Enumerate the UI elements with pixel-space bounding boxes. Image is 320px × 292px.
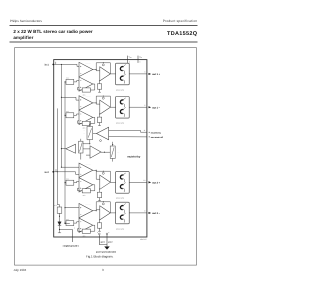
resistor Rb4 below power amp (99, 219, 101, 223)
svg-text:in 2: in 2 (45, 171, 49, 174)
svg-text:3: 3 (139, 61, 140, 63)
bootstrap loop path 3 (96, 170, 110, 172)
svg-text:- - - - -: - - - - - (86, 62, 91, 64)
wire rail B to A5 input (61, 166, 79, 168)
input pin IN2 (52, 171, 54, 173)
svg-text:20 k: 20 k (83, 128, 86, 130)
wire OS1 to pin / output pin out 1 + (129, 73, 147, 75)
resistor Rin1 (65, 81, 66, 83)
resistor Rin4 (65, 222, 66, 224)
wire rail C to Rin4 (65, 223, 70, 225)
svg-text:10: 10 (143, 180, 145, 182)
svg-text:Philips Semiconductors: Philips Semiconductors (10, 19, 42, 22)
svg-text:3: 3 (102, 269, 104, 272)
ground symbol (105, 247, 110, 250)
svg-text:11: 11 (144, 130, 146, 132)
resistor Rfb4 (82, 229, 90, 233)
op-amp A2 (inverting stage path 1) (79, 77, 93, 91)
feedback wire path 2 (90, 117, 94, 123)
svg-text:- -: - - (87, 140, 88, 142)
wire PA1 to output stage (110, 73, 115, 75)
svg-text:20 k: 20 k (83, 195, 86, 197)
op-amp A7 (input stage path 4) (79, 204, 93, 218)
svg-text:20 k: 20 k (83, 235, 86, 237)
wire Z1 to Z2 (89, 140, 91, 144)
svg-text:out 2 +: out 2 + (152, 182, 160, 185)
bootstrap loop path 1 (96, 62, 110, 64)
power op-amp PA2 (100, 100, 111, 114)
svg-text:1: 1 (74, 227, 75, 229)
op-amp A8 (inverting stage path 4) (79, 218, 93, 232)
svg-text:3: 3 (144, 71, 145, 73)
wire D1 to signal ground pin (59, 225, 61, 229)
resistor Rin2 (65, 114, 66, 116)
small node circle (100, 140, 102, 142)
svg-text:20 k: 20 k (66, 111, 69, 113)
feedback wire path 3 (90, 185, 94, 191)
resistor Rb1 below power amp (99, 80, 101, 84)
svg-text:mute/st-by: mute/st-by (151, 132, 161, 134)
power op-amp PA3 (100, 175, 111, 189)
output stage OS4 (116, 202, 130, 224)
svg-text:out 2 −: out 2 − (152, 212, 160, 215)
output stage OS3 (116, 172, 130, 194)
svg-text:gnd 2: gnd 2 (108, 241, 112, 243)
svg-text:Product specification: Product specification (163, 19, 198, 23)
output stage OS2 (116, 97, 130, 119)
power ground pin 2 (106, 233, 108, 235)
svg-text:power amp: power amp (116, 197, 124, 199)
op-amp A1 (input stage path 1) (79, 62, 93, 76)
supply pin VP1 (top) (127, 56, 129, 63)
svg-text:mute/st-by: mute/st-by (127, 155, 140, 158)
op-amp A4 (inverting stage path 2) (79, 110, 93, 124)
wire rail B to A3 input (61, 97, 79, 100)
svg-text:30 k: 30 k (54, 205, 57, 207)
svg-text:amplifier: amplifier (13, 35, 33, 40)
zener Z1 (vertical box) (89, 122, 91, 127)
supply pin VP2 (top) (137, 56, 139, 63)
svg-text:( signal ground ): ( signal ground ) (63, 245, 79, 247)
wire PA2 to output stage (110, 106, 115, 108)
svg-text:20 k: 20 k (83, 94, 86, 96)
resistor Rfb1 (82, 88, 90, 92)
svg-text:5: 5 (97, 232, 98, 234)
wire PA3 to output stage (110, 181, 115, 183)
wire PA4 to output stage (110, 212, 115, 214)
diode D1 (59, 213, 61, 222)
zener Z2 (vertical box) (80, 139, 82, 141)
op-amp C3 (bias driver) (83, 148, 90, 150)
op-amp A5 (input stage path 3) (79, 163, 93, 177)
svg-text:- - - - -: - - - - - (86, 96, 91, 98)
wire C1 to mute pin b (109, 136, 147, 138)
wire rail C (x=65) (64, 82, 66, 224)
resistor Rin3 (65, 182, 66, 184)
resistor Rb3 below power amp (99, 188, 101, 192)
wire A5 output to power amp (93, 169, 96, 171)
svg-text:out 1 −: out 1 − (152, 107, 160, 110)
svg-text:20 k: 20 k (66, 77, 69, 79)
ground join wire (99, 244, 107, 246)
wire A1 output to power amp (93, 69, 96, 71)
wire rail C to A7 input (65, 207, 79, 209)
feedback wire path 1 (90, 84, 94, 90)
svg-text:8: 8 (144, 210, 145, 212)
svg-text:6: 6 (129, 61, 130, 63)
resistor R30k (bottom left) (57, 205, 59, 207)
output stage OS1 (116, 63, 130, 85)
bootstrap loop path 2 (96, 95, 110, 97)
resistor Rb2 below power amp (99, 113, 101, 117)
mute pin labels (149, 131, 150, 133)
svg-text:- - - - -: - - - - - (86, 203, 91, 205)
title block bottom rule (10, 41, 198, 43)
comparator C2 (standby) (61, 148, 65, 150)
resistor Rfb3 (82, 189, 90, 193)
wire A7 output to power amp (93, 210, 96, 212)
svg-text:- - - - -: - - - - - (86, 163, 91, 165)
wire OS2 to pin / output pin out 1 − (129, 106, 147, 108)
svg-text:- -: - - (84, 133, 85, 135)
svg-text:9: 9 (108, 232, 109, 234)
svg-text:20 k: 20 k (66, 219, 69, 221)
wire rail B (x=61.4) (60, 64, 62, 167)
power op-amp PA4 (100, 206, 111, 220)
svg-text:MBC605: MBC605 (140, 239, 147, 241)
svg-text:Fig.1 Block diagram.: Fig.1 Block diagram. (86, 255, 113, 258)
svg-text:power gnd (substrate): power gnd (substrate) (96, 251, 116, 253)
power op-amp PA1 (100, 67, 111, 81)
header rule (10, 25, 198, 27)
svg-text:power amp: power amp (116, 122, 124, 124)
svg-text:- -: - - (84, 130, 85, 132)
svg-text:5: 5 (144, 105, 145, 107)
svg-text:in 1: in 1 (45, 64, 49, 67)
svg-text:- -: - - (118, 152, 120, 154)
svg-text:July 1994: July 1994 (13, 269, 26, 272)
op-amp A6 (inverting stage path 3) (79, 178, 93, 192)
svg-text:power amp: power amp (116, 89, 124, 91)
signal ground pin (72, 230, 74, 243)
svg-text:power amp: power amp (116, 228, 124, 230)
wire OS3 to pin / output pin out 2 + (129, 181, 147, 183)
feedback wire path 4 (90, 225, 94, 231)
wire rail A (left, x=57.3) (56, 108, 58, 204)
op-amp A3 (input stage path 2) (79, 96, 93, 110)
svg-text:2 x 22 W BTL stereo car radio: 2 x 22 W BTL stereo car radio power (13, 29, 92, 34)
power ground pin 1 (98, 233, 100, 235)
resistor Rfb2 (82, 121, 90, 125)
figure frame (15, 48, 197, 265)
svg-text:TDA1552Q: TDA1552Q (167, 30, 197, 36)
IC boundary box (54, 60, 147, 237)
zener Z3 (vertical box) (101, 151, 110, 153)
svg-text:out 1 +: out 1 + (152, 73, 160, 76)
svg-text:20 k: 20 k (66, 178, 69, 180)
svg-text:gnd 1: gnd 1 (101, 241, 105, 243)
wire OS4 to pin / output pin out 2 − (129, 212, 147, 214)
wire A3 output to power amp (93, 102, 96, 104)
wire C1 to mute pin a (109, 130, 147, 132)
comparator C1 (mute) (93, 133, 97, 135)
bootstrap loop path 4 (96, 201, 110, 203)
svg-text:non mute off: non mute off (151, 136, 163, 138)
input pin IN1 (52, 64, 54, 66)
